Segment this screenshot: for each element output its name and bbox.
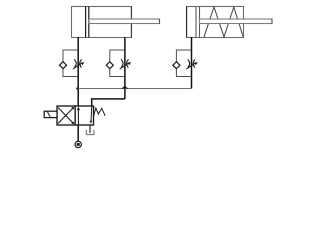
cylinder C1 piston <box>86 7 89 38</box>
cylinder C2 return spring <box>204 7 243 37</box>
node junction marker at rail A x124.8 <box>121 86 128 89</box>
check valve of V3 <box>173 62 180 69</box>
flow control valve V3 bypass branch <box>176 50 191 77</box>
cylinder C1 (double-acting) body <box>72 7 132 38</box>
cylinder C2 (single-acting, spring return) body <box>187 7 244 38</box>
pressure source <box>75 141 81 147</box>
valve U1 (4/2 way) box 1 <box>57 106 75 125</box>
check valve of V2 <box>106 62 113 69</box>
return spring of U1 <box>94 108 106 117</box>
solenoid of U1 <box>44 111 57 117</box>
cylinder C2 left end cap (darker) <box>186 7 188 38</box>
wire valve P port to pressure source <box>77 125 79 141</box>
node junction at rail A x78 <box>76 88 78 90</box>
cylinder C1 right end cap (darker) <box>130 7 132 38</box>
exhaust symbol <box>86 130 94 135</box>
exhaust port line <box>89 125 91 133</box>
crossed arrows in box 1 <box>58 108 74 124</box>
wire C2 port down (through flow control V3) <box>191 37 193 89</box>
wire elbow to valve port B <box>92 99 125 106</box>
throttle of V1 <box>73 59 82 69</box>
cylinder C1 piston rod <box>89 19 160 24</box>
flow path B to R in box 2 <box>90 107 93 122</box>
flow arrow in box 2 (P to A) <box>77 109 79 125</box>
flow control valve V1 bypass branch <box>63 50 78 77</box>
throttle of V3 <box>186 59 195 69</box>
check valve of V1 <box>60 62 67 69</box>
cylinder C2 piston <box>196 7 200 38</box>
throttle of V2 <box>120 59 129 69</box>
cylinder C2 piston rod <box>200 19 273 24</box>
valve U1 box 2 <box>75 106 93 125</box>
flow control valve V2 bypass branch <box>110 50 125 77</box>
wire C1 left port to valve (through flow control V1) <box>77 37 79 106</box>
wire rail A (valve output to V3) <box>78 88 192 90</box>
wire C1 right port down (through flow control V2) <box>124 37 126 99</box>
